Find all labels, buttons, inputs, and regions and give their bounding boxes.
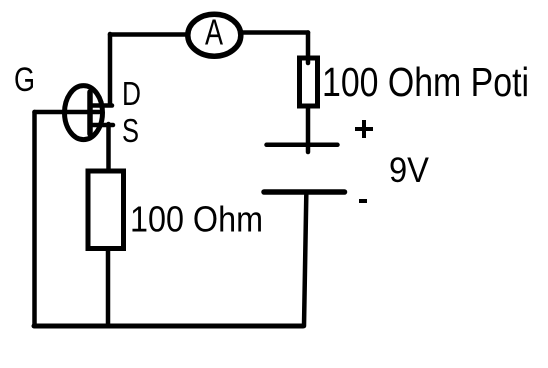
label +	[355, 120, 373, 138]
ammeter A	[188, 12, 241, 57]
wire battery minus down	[304, 195, 306, 326]
resistor 100 Ohm Poti	[300, 58, 530, 106]
wire poti to battery plus	[306, 106, 311, 152]
wire gate horizontal	[35, 110, 100, 115]
svg-text:100 Ohm Poti: 100 Ohm Poti	[322, 59, 529, 105]
wire right vertical into poti	[306, 33, 311, 64]
label D (drain)	[122, 75, 141, 112]
svg-text:D: D	[122, 75, 141, 112]
svg-text:G: G	[14, 61, 35, 99]
transistor source lead	[92, 123, 113, 128]
svg-text:100 Ohm: 100 Ohm	[130, 199, 263, 240]
label -	[359, 199, 367, 203]
label S (source)	[122, 112, 139, 149]
label 9V	[389, 151, 430, 190]
transistor (JFET) body circle	[65, 86, 103, 140]
wire drain vertical from top rail to transistor drain	[108, 34, 113, 105]
transistor drain lead	[92, 103, 112, 108]
transistor gate bar	[87, 92, 93, 134]
svg-text:A: A	[205, 12, 223, 53]
battery 9V plus plate	[267, 143, 338, 148]
wire left vertical (gate to bottom rail)	[32, 112, 37, 326]
resistor 100 Ohm	[88, 171, 263, 249]
svg-text:9V: 9V	[389, 151, 430, 190]
battery 9V minus plate	[264, 189, 345, 195]
wire bottom rail	[34, 324, 303, 329]
wire source vertical to resistor	[106, 124, 111, 169]
label G (gate)	[14, 61, 35, 99]
wire resistor to bottom rail	[106, 251, 111, 326]
wire top horizontal to ammeter	[110, 32, 187, 37]
svg-text:S: S	[122, 112, 139, 149]
wire ammeter right horizontal	[242, 30, 308, 35]
